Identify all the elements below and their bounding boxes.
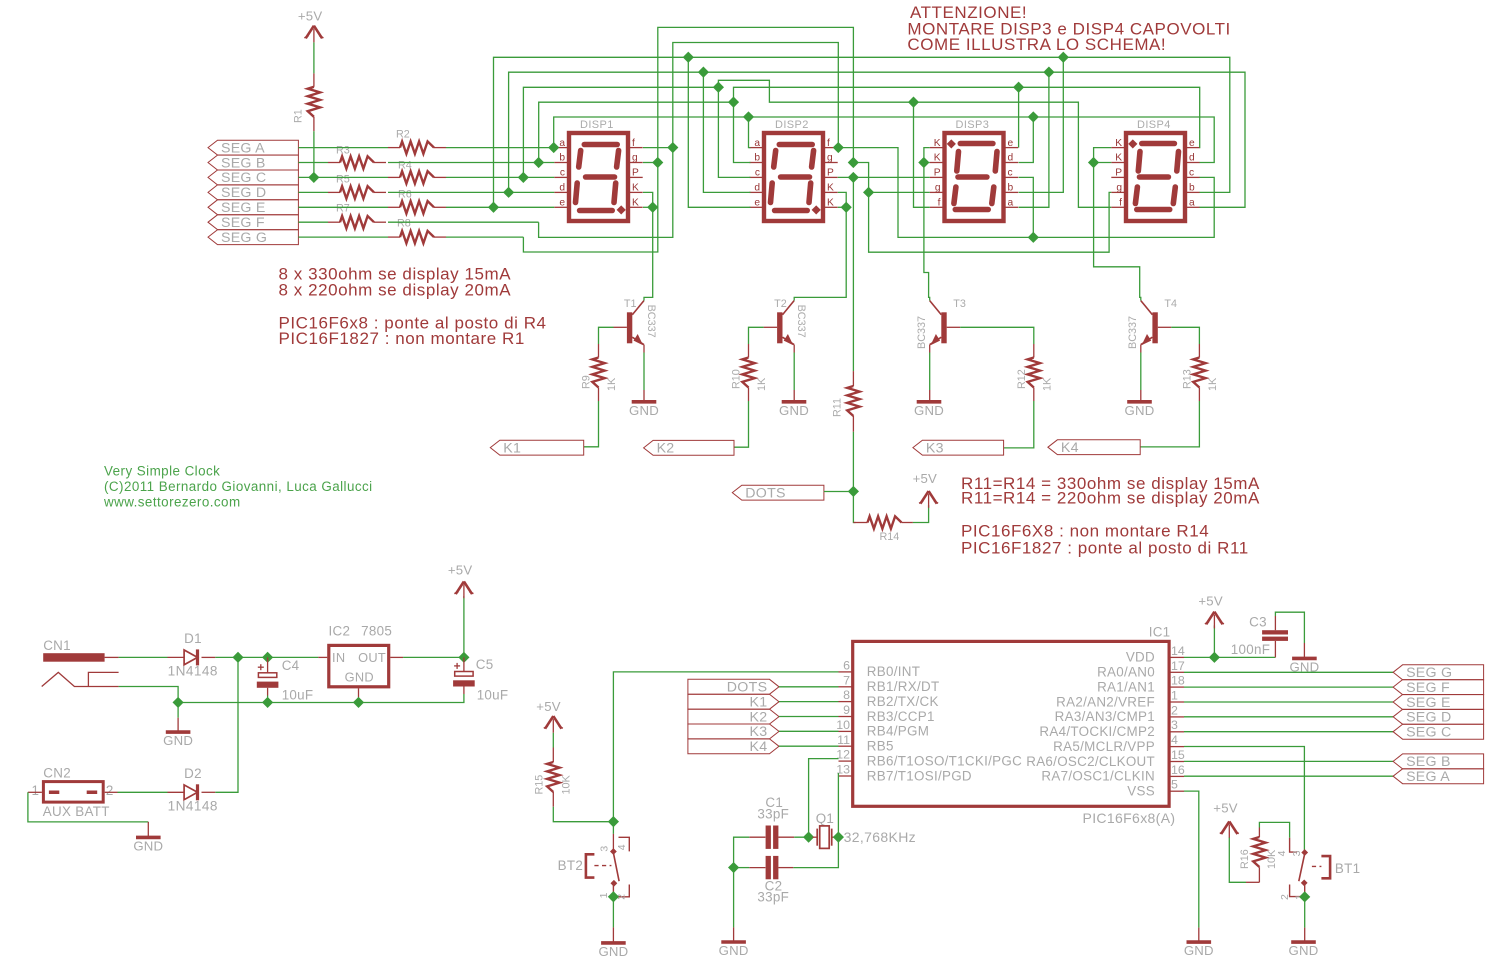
svg-text:RB3/CCP1: RB3/CCP1 bbox=[867, 709, 935, 724]
svg-text:3: 3 bbox=[1291, 850, 1303, 856]
node SEG_F DISP2 f junction bbox=[833, 142, 844, 153]
svg-text:c: c bbox=[1189, 168, 1194, 179]
wire +5V to R16 bottom bbox=[1229, 838, 1246, 883]
svg-text:DOTS: DOTS bbox=[745, 485, 785, 501]
node SEG_B DISP2 drop bbox=[728, 97, 739, 108]
+5V power symbol bbox=[448, 563, 474, 599]
wire IC1 to SEG B tag bbox=[1184, 760, 1393, 762]
DISP2 right pin g bbox=[825, 162, 838, 164]
wire SEG_G row bbox=[298, 236, 388, 238]
svg-text:D1: D1 bbox=[184, 631, 202, 646]
diode D2 bbox=[118, 766, 218, 814]
capacitor C2 bbox=[749, 856, 793, 905]
wire SEG_F row bbox=[298, 221, 328, 223]
svg-text:T1: T1 bbox=[624, 298, 637, 310]
DISP1 right pin g bbox=[630, 162, 643, 164]
IC1 pin 17 RA0/AN0 bbox=[1097, 659, 1185, 680]
svg-text:RA7/OSC1/CLKIN: RA7/OSC1/CLKIN bbox=[1041, 769, 1155, 784]
svg-text:g: g bbox=[632, 153, 638, 164]
IC1 pin 11 RB5 bbox=[837, 733, 894, 754]
svg-text:www.settorezero.com: www.settorezero.com bbox=[103, 495, 241, 510]
svg-text:DISP2: DISP2 bbox=[775, 119, 809, 131]
svg-text:R9: R9 bbox=[581, 375, 593, 389]
IC1 pin 13 RB7/T1OSI/PGD bbox=[836, 763, 972, 784]
svg-text:BC337: BC337 bbox=[916, 316, 928, 349]
node SEG_A DISP3 drop bbox=[1028, 111, 1039, 122]
wire K4 net from DISP4 K pins bbox=[1094, 148, 1112, 163]
svg-text:IC1: IC1 bbox=[1149, 625, 1171, 640]
svg-text:1N4148: 1N4148 bbox=[168, 663, 218, 678]
tag SEG A (right) bbox=[1393, 769, 1484, 785]
DISP4 right pin b bbox=[1187, 191, 1200, 193]
svg-text:33pF: 33pF bbox=[757, 889, 789, 904]
svg-text:SEG A: SEG A bbox=[1406, 769, 1450, 785]
DISP3 left pin K bbox=[930, 147, 943, 149]
display DISP4 bbox=[1111, 119, 1199, 221]
svg-text:GND: GND bbox=[914, 403, 944, 418]
svg-text:GND: GND bbox=[345, 670, 374, 685]
svg-text:33pF: 33pF bbox=[757, 807, 789, 822]
wire RA5/MCLR to BT1 bbox=[1184, 747, 1304, 850]
tag DOTS (PIC) bbox=[688, 679, 779, 695]
svg-text:b: b bbox=[1189, 183, 1195, 194]
wire R15 to junction bbox=[553, 807, 613, 822]
capacitor C4 bbox=[257, 657, 314, 702]
node SEG_A DISP2 drop bbox=[743, 111, 754, 122]
node SEG_C DISP3 drop bbox=[908, 97, 919, 108]
resistor R15 bbox=[534, 748, 573, 807]
svg-text:e: e bbox=[559, 198, 565, 209]
ground bbox=[1289, 658, 1319, 674]
svg-text:CN1: CN1 bbox=[43, 638, 71, 653]
svg-text:8: 8 bbox=[843, 688, 850, 702]
wire net SEG_G run bbox=[523, 27, 853, 252]
svg-text:a: a bbox=[1189, 198, 1195, 209]
svg-text:32,768KHz: 32,768KHz bbox=[844, 829, 916, 845]
wire K2 tag to pin9 bbox=[779, 716, 839, 718]
IC1 pin 5 VSS bbox=[1127, 778, 1184, 799]
svg-text:+5V: +5V bbox=[1213, 800, 1237, 815]
node SEG_E DISP2 drop bbox=[683, 52, 694, 63]
DISP2 left pin d bbox=[749, 191, 762, 193]
svg-text:14: 14 bbox=[1171, 644, 1185, 658]
resistor R4 bbox=[388, 160, 446, 184]
svg-text:K2: K2 bbox=[749, 709, 767, 725]
DISP1 right pin K bbox=[630, 191, 643, 193]
svg-text:RB6/T1OSO/T1CKI/PGC: RB6/T1OSO/T1CKI/PGC bbox=[867, 753, 1022, 768]
svg-text:f: f bbox=[827, 138, 830, 149]
resistor R14 bbox=[853, 516, 913, 543]
svg-text:SEG A: SEG A bbox=[221, 140, 265, 156]
resistor R12 bbox=[1016, 344, 1054, 401]
wire D2 to D1 junction bbox=[215, 657, 238, 792]
capacitor C5 bbox=[453, 657, 508, 703]
svg-text:D2: D2 bbox=[184, 766, 202, 781]
svg-text:OUT: OUT bbox=[358, 650, 386, 665]
node SEG_G DISP2 g junction bbox=[848, 157, 859, 168]
tag SEG D (left) bbox=[208, 185, 298, 201]
wire C1 left to C2 junction bbox=[734, 837, 750, 867]
DISP3 right pin d bbox=[1006, 162, 1019, 164]
wire T3 base to R12 bbox=[947, 326, 961, 328]
wire K4 to T4 collector bbox=[1094, 163, 1141, 301]
svg-text:RA2/AN2/VREF: RA2/AN2/VREF bbox=[1056, 694, 1155, 709]
svg-text:1K: 1K bbox=[606, 377, 618, 391]
svg-text:Q1: Q1 bbox=[816, 811, 834, 826]
node SEG_F DISP3 c drop bbox=[1028, 232, 1039, 243]
svg-text:+5V: +5V bbox=[913, 471, 937, 486]
wire IC1 to SEG F tag bbox=[1184, 686, 1393, 688]
ground bbox=[1125, 402, 1155, 418]
transistor T4 (BC337) bbox=[1127, 298, 1177, 349]
wire CN1 to D1 bbox=[119, 656, 168, 658]
node R1/SEG C junction bbox=[308, 172, 319, 183]
svg-text:g: g bbox=[1116, 183, 1122, 194]
svg-text:K4: K4 bbox=[1061, 440, 1079, 456]
resistor R5 bbox=[328, 174, 386, 199]
wire net SEG_C bus bbox=[523, 87, 718, 177]
tag K4 (PIC) bbox=[688, 739, 779, 755]
svg-text:K: K bbox=[827, 183, 834, 194]
diode D1 bbox=[168, 631, 218, 679]
wire K1 net from DISP1 K pins bbox=[643, 192, 653, 207]
svg-text:d: d bbox=[1189, 153, 1195, 164]
node Q1 left junction bbox=[803, 832, 814, 843]
svg-text:1: 1 bbox=[598, 892, 610, 898]
svg-text:12: 12 bbox=[836, 748, 850, 762]
svg-text:K1: K1 bbox=[503, 440, 521, 456]
svg-text:5: 5 bbox=[1171, 778, 1178, 792]
wire net SEG_F run bbox=[539, 43, 839, 238]
svg-text:GND: GND bbox=[779, 403, 809, 418]
node SEG_G DISP1 g tap bbox=[652, 157, 663, 168]
IC1 pin 1 RA2/AN2/VREF bbox=[1056, 689, 1184, 710]
svg-text:SEG F: SEG F bbox=[1406, 680, 1450, 696]
node SEG_C DISP2 drop bbox=[713, 82, 724, 93]
DISP3 right pin c bbox=[1006, 176, 1019, 178]
svg-text:f: f bbox=[1119, 198, 1122, 209]
node SEG_E row junction bbox=[488, 202, 499, 213]
svg-text:K: K bbox=[827, 198, 834, 209]
wire K1 tag to pin8 bbox=[779, 701, 839, 703]
DISP1 left pin b bbox=[554, 162, 567, 164]
svg-text:R11: R11 bbox=[832, 398, 844, 417]
IC1 pin 16 RA7/OSC1/CLKIN bbox=[1041, 763, 1184, 784]
svg-text:f: f bbox=[938, 198, 941, 209]
svg-text:SEG F: SEG F bbox=[221, 215, 265, 231]
svg-text:d: d bbox=[559, 183, 565, 194]
IC1 pin 18 RA1/AN1 bbox=[1097, 674, 1185, 695]
node SEG_A row junction bbox=[548, 142, 559, 153]
wire net SEG_B crossover bbox=[734, 87, 1200, 147]
node K3 DISP3 K junction bbox=[918, 157, 929, 168]
svg-text:BT1: BT1 bbox=[1335, 861, 1360, 876]
svg-text:4: 4 bbox=[1171, 733, 1178, 747]
svg-text:K: K bbox=[934, 138, 941, 149]
DISP1 left pin d bbox=[554, 191, 567, 193]
svg-text:e: e bbox=[1008, 138, 1014, 149]
node K2 DISP2 K junction bbox=[841, 202, 852, 213]
display DISP2 bbox=[749, 119, 837, 221]
svg-text:2: 2 bbox=[1171, 703, 1178, 717]
node SEG_D DISP2 drop bbox=[698, 67, 709, 78]
svg-text:PIC16F1827 : ponte al posto di: PIC16F1827 : ponte al posto di R11 bbox=[961, 538, 1249, 557]
wire K1 to T1 collector bbox=[644, 207, 653, 300]
DISP1 left pin e bbox=[554, 206, 567, 208]
wire K3 tag to pin10 bbox=[779, 730, 839, 732]
svg-text:+5V: +5V bbox=[448, 563, 472, 578]
wire R12 to K3 tag bbox=[1004, 401, 1034, 448]
svg-text:GND: GND bbox=[598, 944, 628, 959]
svg-text:RA0/AN0: RA0/AN0 bbox=[1097, 665, 1155, 680]
svg-text:RB7/T1OSI/PGD: RB7/T1OSI/PGD bbox=[867, 768, 972, 783]
svg-text:R6: R6 bbox=[398, 189, 412, 201]
note resistor values text bbox=[279, 265, 547, 349]
wire +5V to R1 bbox=[313, 42, 315, 73]
svg-text:K3: K3 bbox=[749, 724, 767, 740]
node SEG_C row junction bbox=[518, 172, 529, 183]
+5V power symbol bbox=[913, 471, 939, 508]
wire net SEG_B bus bbox=[539, 102, 734, 162]
connector CN1 (DC jack) bbox=[42, 638, 119, 687]
wire DOTS tag to junction bbox=[824, 491, 854, 493]
svg-text:SEG C: SEG C bbox=[1406, 725, 1451, 741]
svg-text:BC337: BC337 bbox=[645, 305, 657, 338]
svg-text:+5V: +5V bbox=[298, 9, 322, 24]
svg-text:SEG E: SEG E bbox=[221, 200, 266, 216]
node SEG_G DISP3 g tap bbox=[863, 187, 874, 198]
ground bbox=[719, 942, 749, 958]
svg-text:RB5: RB5 bbox=[867, 739, 894, 754]
svg-text:a: a bbox=[1008, 198, 1014, 209]
resistor R1 bbox=[293, 73, 321, 131]
svg-text:2: 2 bbox=[1279, 894, 1291, 900]
svg-text:GND: GND bbox=[629, 403, 659, 418]
tag SEG E (right) bbox=[1393, 695, 1484, 711]
tag SEG E (left) bbox=[208, 200, 298, 216]
svg-text:f: f bbox=[632, 138, 635, 149]
svg-text:18: 18 bbox=[1171, 674, 1185, 688]
capacitor C1 bbox=[749, 795, 794, 849]
svg-text:AUX BATT: AUX BATT bbox=[43, 804, 110, 819]
+5V power symbol bbox=[298, 9, 324, 43]
DISP2 left pin a bbox=[749, 147, 762, 149]
svg-text:1K: 1K bbox=[1041, 377, 1053, 391]
svg-text:GND: GND bbox=[133, 838, 163, 853]
svg-text:g: g bbox=[935, 183, 941, 194]
node K4 DISP4 K junction bbox=[1088, 157, 1099, 168]
DISP4 left pin K bbox=[1111, 162, 1124, 164]
svg-text:1K: 1K bbox=[1207, 377, 1219, 391]
svg-text:BC337: BC337 bbox=[795, 305, 807, 338]
IC1 pin 9 RB3/CCP1 bbox=[839, 703, 935, 724]
wire net SEG_D bus bbox=[509, 72, 1049, 207]
wire net DOTS bbox=[838, 176, 930, 178]
wire SEG_C row bbox=[298, 176, 388, 178]
DISP2 right pin K bbox=[825, 206, 838, 208]
svg-text:11: 11 bbox=[837, 733, 850, 747]
pushbutton BT2 bbox=[558, 822, 630, 900]
wire net SEG_D to DISP4 bbox=[1049, 72, 1245, 207]
svg-text:RB2/TX/CK: RB2/TX/CK bbox=[867, 694, 939, 709]
svg-text:K: K bbox=[1115, 138, 1122, 149]
IC1 pin 8 RB2/TX/CK bbox=[839, 688, 939, 709]
svg-text:1: 1 bbox=[1171, 689, 1178, 703]
resistor R16 bbox=[1239, 828, 1278, 883]
svg-text:e: e bbox=[754, 198, 760, 209]
wire R13 to K4 tag bbox=[1140, 401, 1199, 447]
wire DOTS to R14 bbox=[853, 492, 855, 523]
node SEG_D row junction bbox=[503, 187, 514, 198]
DISP4 left pin f bbox=[1111, 206, 1124, 208]
DISP2 right pin f bbox=[825, 147, 838, 149]
DISP4 right pin d bbox=[1187, 162, 1200, 164]
wire IC1 to SEG G tag bbox=[1184, 671, 1393, 673]
tag SEG B (left) bbox=[208, 155, 298, 171]
DISP3 left pin P bbox=[930, 176, 943, 178]
wire C2 left to junction bbox=[734, 867, 750, 869]
ground bbox=[779, 402, 809, 418]
svg-text:7: 7 bbox=[843, 673, 850, 687]
DISP4 left pin g bbox=[1111, 191, 1124, 193]
tag K2 (PIC) bbox=[688, 709, 779, 725]
wire T4 base to R13 bbox=[1158, 326, 1172, 328]
display DISP1 bbox=[554, 119, 642, 221]
wire SEG_A row bbox=[298, 147, 388, 149]
note credits text bbox=[103, 464, 373, 510]
svg-text:SEG E: SEG E bbox=[1406, 695, 1451, 711]
ground bbox=[1184, 942, 1214, 958]
wire VSS to ground bbox=[1184, 791, 1199, 928]
wire K2 net from DISP2 K pins bbox=[838, 192, 846, 207]
node SEG_B DISP3 drop bbox=[1013, 82, 1024, 93]
note ATTENZIONE text bbox=[907, 3, 1230, 54]
IC1 pin 7 RB1/RX/DT bbox=[839, 673, 940, 694]
wire to +5V arrow bbox=[463, 596, 465, 657]
DISP1 right pin K bbox=[630, 206, 643, 208]
display DISP3 bbox=[930, 119, 1018, 221]
ground bbox=[914, 402, 944, 418]
svg-text:RB1/RX/DT: RB1/RX/DT bbox=[867, 679, 940, 694]
node C4 top junction bbox=[262, 652, 273, 663]
ground bbox=[629, 402, 659, 418]
svg-text:SEG B: SEG B bbox=[221, 155, 266, 171]
resistor R11 bbox=[832, 371, 860, 432]
wire R16 top to BT1 pin4 bbox=[1259, 822, 1289, 837]
svg-text:SEG G: SEG G bbox=[221, 230, 267, 246]
wire net SEG_A to DISP4 bbox=[1033, 117, 1214, 163]
DISP2 right pin P bbox=[825, 176, 838, 178]
svg-text:10: 10 bbox=[836, 718, 850, 732]
wire T1 emitter to ground bbox=[643, 345, 645, 353]
resistor R7 bbox=[328, 203, 386, 229]
ground bbox=[163, 732, 193, 748]
svg-text:b: b bbox=[559, 153, 565, 164]
svg-text:T3: T3 bbox=[953, 298, 966, 310]
svg-text:RA3/AN3/CMP1: RA3/AN3/CMP1 bbox=[1055, 709, 1155, 724]
tag K2 bbox=[644, 440, 734, 456]
ground bbox=[133, 837, 163, 853]
+5V power symbol bbox=[1198, 594, 1224, 629]
svg-text:GND: GND bbox=[1184, 943, 1214, 958]
transistor T3 (BC337) bbox=[916, 298, 966, 349]
node C4 bottom junction bbox=[262, 697, 273, 708]
wire K4 tag to pin11 bbox=[779, 745, 839, 747]
svg-text:10uF: 10uF bbox=[282, 688, 314, 703]
DISP4 left pin K bbox=[1111, 147, 1124, 149]
svg-text:PIC16F1827 : non montare R1: PIC16F1827 : non montare R1 bbox=[279, 329, 525, 348]
svg-text:K4: K4 bbox=[749, 739, 767, 755]
DISP1 right pin f bbox=[630, 147, 643, 149]
svg-text:d: d bbox=[1008, 153, 1014, 164]
svg-text:COME ILLUSTRA LO SCHEMA!: COME ILLUSTRA LO SCHEMA! bbox=[907, 35, 1166, 54]
svg-text:c: c bbox=[560, 168, 565, 179]
tag SEG A (left) bbox=[208, 140, 298, 156]
tag SEG C (left) bbox=[208, 170, 298, 186]
svg-text:SEG G: SEG G bbox=[1406, 665, 1452, 681]
wire net SEG_F continue bbox=[838, 148, 1214, 238]
node C2 left junction bbox=[728, 862, 739, 873]
wire net SEG_E to DISP4 bbox=[1063, 57, 1230, 192]
DISP3 right pin a bbox=[1006, 206, 1019, 208]
svg-text:a: a bbox=[559, 138, 565, 149]
svg-text:b: b bbox=[1008, 183, 1014, 194]
resistor R13 bbox=[1181, 344, 1219, 401]
DISP3 right pin e bbox=[1006, 147, 1019, 149]
IC1 pin 12 RB6/T1OSO/T1CKI/PGC bbox=[836, 748, 1022, 769]
svg-text:Very Simple Clock: Very Simple Clock bbox=[104, 464, 220, 479]
svg-text:c: c bbox=[755, 168, 760, 179]
svg-text:7805: 7805 bbox=[361, 624, 392, 639]
wire net SEG_C jog bbox=[718, 80, 1111, 207]
svg-text:K: K bbox=[934, 153, 941, 164]
svg-text:8 x 220ohm se display 20mA: 8 x 220ohm se display 20mA bbox=[279, 280, 512, 299]
svg-text:RB0/INT: RB0/INT bbox=[867, 664, 920, 679]
svg-text:6: 6 bbox=[843, 658, 850, 672]
svg-text:1K: 1K bbox=[756, 377, 768, 391]
resistor R8 bbox=[388, 218, 446, 244]
node BT1 bottom junction bbox=[1299, 891, 1310, 902]
node sleeve/gnd junction bbox=[173, 697, 184, 708]
wire K3 to T3 collector bbox=[924, 163, 930, 301]
DISP3 left pin K bbox=[930, 162, 943, 164]
connector CN2 (AUX BATT) bbox=[28, 766, 118, 819]
IC1 pin 10 RB4/PGM bbox=[836, 718, 929, 739]
svg-text:T2: T2 bbox=[774, 298, 787, 310]
resistor R9 bbox=[581, 344, 619, 401]
wire net SEG_G continue bbox=[853, 163, 1111, 253]
svg-text:DOTS: DOTS bbox=[727, 680, 768, 696]
wire RB7 to Q1 bbox=[837, 773, 839, 837]
svg-text:K: K bbox=[632, 183, 639, 194]
+5V power symbol bbox=[1213, 800, 1239, 838]
node DOTS DISP2 P junction bbox=[848, 172, 859, 183]
IC1 pin 15 RA6/OSC2/CLKOUT bbox=[1026, 748, 1185, 769]
wire T2 emitter to ground bbox=[793, 345, 795, 353]
svg-text:16: 16 bbox=[1171, 763, 1185, 777]
DISP1 left pin c bbox=[554, 176, 567, 178]
note R11 R14 text bbox=[961, 474, 1260, 558]
svg-text:GND: GND bbox=[1125, 403, 1155, 418]
wire T3 emitter to ground bbox=[929, 345, 931, 353]
resistor R2 bbox=[388, 129, 446, 154]
IC1 pin 6 RB0/INT bbox=[839, 658, 921, 679]
svg-text:R13: R13 bbox=[1181, 369, 1193, 389]
svg-text:K1: K1 bbox=[749, 695, 767, 711]
node IC2 gnd junction bbox=[353, 697, 364, 708]
svg-text:R12: R12 bbox=[1016, 369, 1028, 389]
node VDD junction bbox=[1209, 652, 1220, 663]
